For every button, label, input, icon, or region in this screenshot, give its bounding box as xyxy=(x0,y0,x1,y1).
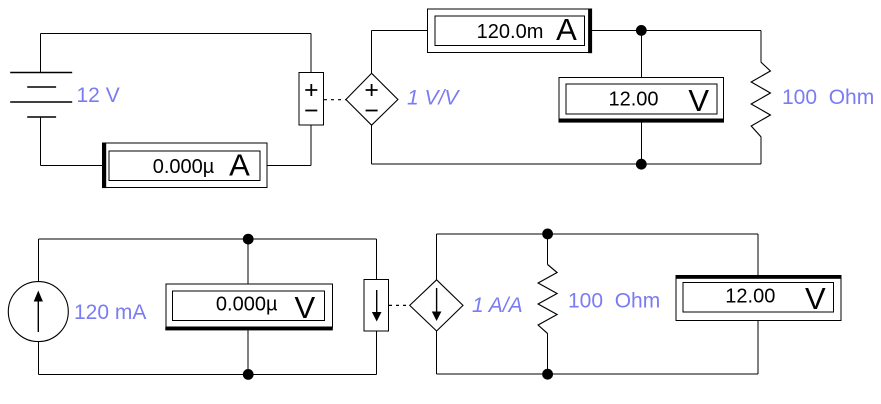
svg-text:V: V xyxy=(295,290,316,325)
svg-text:V: V xyxy=(688,83,709,118)
wire E1 to ammeter U2 xyxy=(372,29,428,31)
wire probe top lead xyxy=(310,34,312,73)
node junction top of resistor R2 xyxy=(542,229,553,240)
wire U3 bottom lead xyxy=(640,123,642,165)
svg-text:12.00: 12.00 xyxy=(608,88,658,110)
node junction bottom of voltmeter U4 xyxy=(243,369,254,380)
svg-text:120 mA: 120 mA xyxy=(74,301,146,324)
wire current probe bottom lead xyxy=(376,331,378,375)
svg-text:1 V/V: 1 V/V xyxy=(407,87,460,110)
battery V1 xyxy=(10,34,72,166)
voltmeter U5 reading 12.00 V xyxy=(676,275,842,320)
wire top rail bottom-right loop xyxy=(437,233,758,235)
wire U5 bottom lead xyxy=(757,320,759,374)
wire E1 top lead xyxy=(371,30,373,73)
wire bottom rail bottom-left loop xyxy=(38,373,376,375)
ammeter U2 reading 120.0m A xyxy=(428,9,592,54)
dependent source E1 (VCVS diamond) xyxy=(346,73,398,125)
svg-text:100 Ohm: 100 Ohm xyxy=(782,86,874,109)
voltmeter U3 reading 12.00 V xyxy=(559,78,725,123)
voltmeter U4 reading 0.000u V xyxy=(165,284,332,330)
wire battery to ammeter U1 xyxy=(41,164,103,166)
voltage sense probe of source E1 xyxy=(299,73,323,125)
svg-text:100 Ohm: 100 Ohm xyxy=(568,290,660,313)
dashed control link to E1 xyxy=(324,99,346,101)
svg-text:V: V xyxy=(805,281,826,316)
svg-text:A: A xyxy=(229,148,250,183)
svg-text:120.0m: 120.0m xyxy=(477,21,544,43)
wire F1 top lead xyxy=(436,234,438,280)
dashed control link to F1 xyxy=(389,304,410,306)
svg-text:1 A/A: 1 A/A xyxy=(472,294,523,317)
svg-text:12.00: 12.00 xyxy=(725,285,775,307)
svg-text:0.000µ: 0.000µ xyxy=(153,156,215,178)
wire bottom rail bottom-right loop xyxy=(437,373,758,375)
wire node down to voltmeter U3 xyxy=(640,30,642,77)
node junction bottom xyxy=(636,159,647,170)
wire F1 bottom lead xyxy=(436,331,438,374)
wire ammeter U1 to corner xyxy=(267,164,311,166)
current source I1 xyxy=(8,239,68,374)
node junction top xyxy=(636,25,647,36)
svg-text:0.000µ: 0.000µ xyxy=(216,294,278,316)
wire corner up to probe box xyxy=(310,125,312,166)
wire top rail bottom-left loop xyxy=(38,238,376,240)
wire bottom rail right circuit xyxy=(372,163,761,165)
wire U4 top lead xyxy=(247,239,249,284)
wire E1 bottom lead xyxy=(371,125,373,164)
ammeter U1 reading 0.000u A xyxy=(102,143,267,189)
wire U4 bottom lead xyxy=(247,330,249,374)
resistor R1 100 Ohm xyxy=(751,30,770,164)
node junction bottom of resistor R2 xyxy=(542,369,553,380)
resistor R2 100 Ohm xyxy=(538,234,557,374)
svg-text:12 V: 12 V xyxy=(77,84,120,107)
wire U2 to resistor R1 corner xyxy=(592,29,761,31)
wire top rail of battery loop xyxy=(41,33,312,35)
wire V3 top lead xyxy=(757,234,759,276)
wire current probe top lead xyxy=(376,239,378,280)
current sense probe of source F1 xyxy=(364,280,389,331)
node junction top of voltmeter U4 xyxy=(243,234,254,245)
svg-text:A: A xyxy=(556,12,577,47)
dependent source F1 (CCCS diamond) xyxy=(410,280,463,331)
